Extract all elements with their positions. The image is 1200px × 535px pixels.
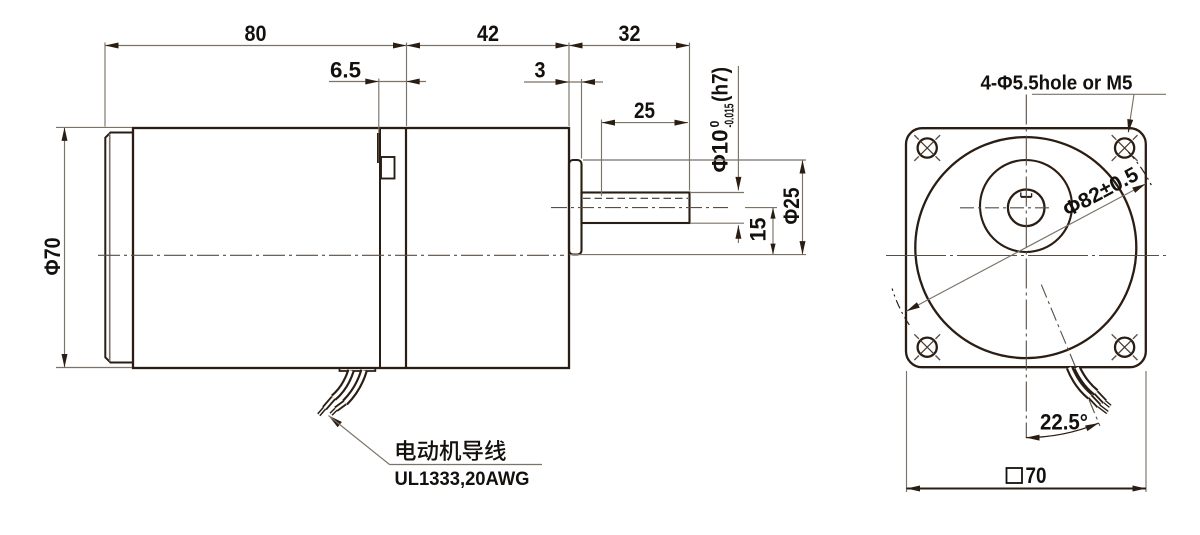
ext line boss bottom: [570, 254, 807, 256]
dim 15 line: [772, 208, 774, 255]
dim phi82 diagonal line: [906, 184, 1145, 311]
bearing boss: [569, 160, 582, 255]
mounting flange square: [906, 128, 1146, 367]
dim square70 line: [907, 488, 1147, 490]
mounting hole top-left (4-phi5.5): [918, 138, 937, 157]
dim 80 line: [105, 45, 407, 47]
dim phi25 text: [779, 188, 804, 225]
extension line left of 80: [104, 43, 106, 127]
dim 25 line: [602, 122, 689, 124]
ext line boss top: [583, 159, 806, 161]
svg-text:Φ70: Φ70: [40, 238, 65, 276]
shaft axis centerline: [551, 207, 728, 209]
dim phi70 text: [40, 238, 65, 276]
vertical centerline: [1025, 95, 1027, 439]
svg-text:42: 42: [477, 21, 499, 46]
svg-text:3: 3: [535, 58, 546, 83]
svg-text:UL1333,20AWG: UL1333,20AWG: [395, 468, 530, 490]
svg-text:80: 80: [245, 21, 267, 46]
22.5deg centerline: [1041, 285, 1100, 426]
mounting hole top-right (4-phi5.5): [1115, 138, 1134, 157]
dim square70 text: [1007, 468, 1023, 483]
wire 1 bare tip: [319, 408, 325, 415]
ext line body top left: [56, 126, 132, 128]
dim 15 text: [746, 218, 771, 242]
wire 2 end sleeve: [336, 403, 345, 410]
shaft flat (hidden) line: [583, 197, 688, 199]
svg-text:0: 0: [708, 121, 722, 128]
mounting hole bottom-right (4-phi5.5): [1115, 338, 1134, 357]
ext line shaft top: [691, 192, 744, 194]
svg-text:70: 70: [1026, 463, 1047, 488]
extension line for 3 (boss face): [581, 79, 583, 159]
svg-text:(h7): (h7): [708, 67, 733, 102]
right view wire 1: [1070, 368, 1091, 397]
motor/gearbox joint line: [405, 128, 407, 368]
housing seam at 6.5 line: [379, 128, 381, 368]
phi82 bolt-circle arc marks: [892, 289, 909, 325]
dim 6.5 line with outside arrows: [329, 81, 426, 83]
ext line body bottom left: [56, 367, 132, 369]
label leader line: [1032, 93, 1166, 95]
extension line 80/42: [406, 43, 408, 127]
dim phi25 line: [802, 160, 804, 255]
mounting hole bottom-left (4-phi5.5): [918, 338, 937, 357]
dim phi10 label: [708, 67, 737, 173]
wire leader arrow: [329, 416, 342, 428]
label dianji daoxian (motor lead wire): [397, 440, 506, 461]
extension line for 25: [601, 120, 603, 197]
terminal notch on seam: [381, 157, 395, 179]
dim square70 ext lines: [906, 371, 908, 492]
extension line for 6.5: [378, 79, 380, 134]
right view wire 1 sleeve: [1090, 397, 1099, 407]
motor axis centerline: [98, 254, 564, 256]
output shaft circle: [1008, 190, 1045, 227]
svg-text:25: 25: [634, 98, 655, 123]
svg-text:Φ25: Φ25: [779, 188, 804, 225]
shaft horizontal centerline: [960, 207, 1052, 209]
gearhead boss circle: [980, 160, 1072, 252]
dim 32 line: [569, 45, 690, 47]
dim 42 line: [407, 45, 570, 47]
dim phi70 line: [64, 127, 66, 367]
svg-text:32: 32: [619, 21, 641, 46]
right view wire 1 bare tip: [1099, 406, 1108, 413]
extension line at shaft end: [689, 43, 691, 191]
svg-text:6.5: 6.5: [330, 58, 361, 83]
svg-text:22.5°: 22.5°: [1040, 410, 1088, 435]
svg-text:4-Φ5.5hole or M5: 4-Φ5.5hole or M5: [981, 73, 1133, 95]
dim 3 line with outside arrows: [524, 81, 603, 83]
wire 2 bare tip: [331, 409, 336, 414]
dim phi10 arrows: [737, 66, 739, 190]
right view wire 2 bare tip: [1105, 402, 1111, 407]
svg-text:Φ10: Φ10: [708, 130, 733, 173]
svg-text:-0.015: -0.015: [723, 103, 737, 127]
svg-text:15: 15: [746, 218, 771, 242]
shaft keyway flat: [1021, 196, 1032, 198]
motor body outline (80mm section + 42mm gearbox): [133, 128, 569, 368]
ext line shaft bottom: [691, 222, 744, 224]
ext line shaft axis right: [745, 207, 777, 209]
rear end cap: [105, 133, 133, 363]
right view wire 2 sleeve: [1096, 393, 1105, 402]
wire 1 end sleeve: [325, 398, 334, 408]
dim phi82 text: [1059, 163, 1142, 222]
output shaft: [582, 193, 690, 224]
motor body circle: [915, 137, 1136, 358]
wire grommet step: [340, 369, 376, 371]
22.5deg arc: [1026, 423, 1099, 438]
horizontal centerline: [886, 255, 1166, 257]
extension line 42/32 gearbox face: [568, 43, 570, 127]
motor lead wire 1: [334, 371, 352, 398]
right view wire 2: [1077, 368, 1096, 393]
motor lead wire 2: [345, 371, 364, 403]
